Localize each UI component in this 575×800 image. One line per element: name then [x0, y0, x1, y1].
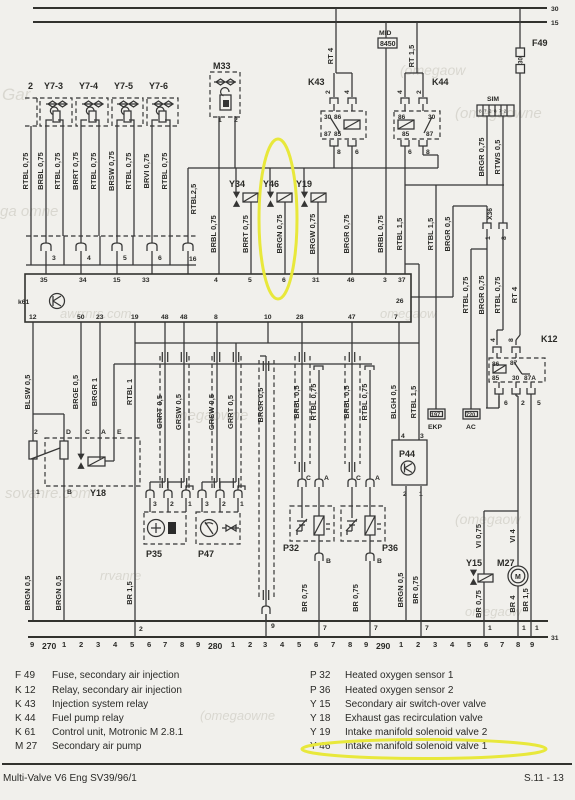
ground bus and track ruler — [28, 614, 559, 651]
svg-text:Y7-3: Y7-3 — [44, 81, 63, 91]
bottom pins — [401, 140, 409, 146]
svg-text:31: 31 — [551, 635, 559, 642]
svg-text:BR 0,75: BR 0,75 — [300, 584, 309, 612]
exhaust gas recirculation valve Y18 — [29, 364, 140, 498]
svg-text:K43: K43 — [308, 77, 325, 87]
wire MID to ECU pin 3 (BRBL 0,75) — [385, 48, 387, 274]
secondary air pump M27 — [497, 558, 528, 586]
svg-text:P44: P44 — [399, 449, 415, 459]
svg-text:M27: M27 — [497, 558, 515, 568]
svg-text:Y34: Y34 — [229, 179, 245, 189]
svg-text:6: 6 — [484, 640, 488, 649]
wire BRRT 0,75 (Y7-4 to pin 4) — [80, 126, 82, 243]
svg-text:A: A — [324, 475, 329, 482]
svg-text:BR 4: BR 4 — [508, 595, 517, 613]
knock sensor P35 — [144, 512, 186, 559]
switch blade — [31, 448, 60, 459]
svg-text:Secondary air pump: Secondary air pump — [52, 741, 142, 752]
fuse F49 — [516, 8, 548, 73]
highlight ellipse around Y46 — [259, 139, 297, 299]
svg-text:280: 280 — [208, 641, 223, 651]
svg-text:2: 2 — [34, 429, 38, 436]
svg-text:4: 4 — [401, 433, 405, 440]
pin 3 — [41, 243, 51, 251]
control unit K61 (Motronic) — [18, 274, 411, 322]
svg-text:2: 2 — [325, 90, 332, 94]
coil — [398, 120, 414, 129]
svg-text:7: 7 — [394, 314, 398, 321]
wire RTBL 0,75 — [62, 126, 64, 236]
svg-text:P 36: P 36 — [310, 685, 331, 696]
svg-text:3: 3 — [263, 640, 267, 649]
svg-text:28: 28 — [296, 314, 304, 321]
svg-text:4: 4 — [214, 277, 218, 284]
svg-text:P36: P36 — [382, 543, 398, 553]
svg-text:Multi-Valve V6 Eng SV39/96/1: Multi-Valve V6 Eng SV39/96/1 — [3, 773, 137, 784]
shield P32 — [295, 356, 310, 464]
wire ECU pin 10 stub — [267, 322, 269, 343]
svg-text:5: 5 — [537, 400, 541, 407]
svg-text:BR 1,5: BR 1,5 — [521, 588, 530, 612]
svg-text:Y7-6: Y7-6 — [149, 81, 168, 91]
svg-text:BRGW 0,75: BRGW 0,75 — [308, 214, 317, 255]
svg-text:K 12: K 12 — [15, 685, 36, 696]
pump M33 — [210, 61, 240, 124]
rail node (y185) — [405, 184, 504, 186]
injector Y7-2 (partial at left edge) — [21, 81, 37, 236]
wire RTBL 0,75 to P32 A — [314, 366, 323, 479]
connector MID 8450 — [378, 22, 397, 48]
svg-text:BLGH 0,5: BLGH 0,5 — [389, 385, 398, 419]
svg-text:9: 9 — [196, 640, 200, 649]
wire BLGH 0,5 ECU 7 to P44 — [398, 322, 400, 440]
wire BR 0,75 P32 to ground — [318, 561, 320, 621]
svg-text:47: 47 — [348, 314, 356, 321]
solenoid valve Y19 — [296, 168, 326, 207]
svg-text:P47: P47 — [198, 549, 214, 559]
svg-text:34: 34 — [79, 277, 87, 284]
svg-text:270: 270 — [42, 641, 57, 651]
svg-text:Exhaust gas recirculation valv: Exhaust gas recirculation valve — [345, 713, 483, 724]
svg-text:2: 2 — [28, 81, 33, 91]
highlight ellipse around legend Y46 line — [302, 740, 546, 759]
pin 6 — [147, 243, 157, 251]
svg-text:RTBL 1,5: RTBL 1,5 — [409, 386, 418, 419]
svg-text:F 49: F 49 — [15, 670, 35, 681]
svg-text:SIM: SIM — [487, 96, 499, 103]
svg-text:RTWS 0,5: RTWS 0,5 — [493, 140, 502, 175]
svg-text:Injection system relay: Injection system relay — [52, 699, 148, 710]
svg-text:6: 6 — [314, 640, 318, 649]
svg-text:6: 6 — [355, 149, 359, 156]
svg-text:Fuse, secondary air injection: Fuse, secondary air injection — [52, 670, 179, 681]
svg-text:23: 23 — [96, 314, 104, 321]
svg-text:BRBL 0,5: BRBL 0,5 — [342, 385, 351, 419]
svg-text:VI 0,75: VI 0,75 — [474, 524, 483, 548]
svg-text:RTBL 0,75: RTBL 0,75 — [360, 384, 369, 421]
svg-text:46: 46 — [347, 277, 355, 284]
wire RTBL 0,75 — [98, 126, 100, 236]
svg-text:Heated oxygen sensor 1: Heated oxygen sensor 1 — [345, 670, 454, 681]
svg-text:D: D — [66, 429, 71, 436]
svg-text:Y 18: Y 18 — [310, 713, 331, 724]
secondary air switch-over valve Y15 — [466, 558, 493, 585]
switch — [424, 117, 432, 133]
wire pin6 to ECU 33 — [151, 251, 153, 274]
svg-text:4: 4 — [490, 338, 497, 342]
svg-text:87: 87 — [426, 131, 434, 138]
wire VI 4 K12 pin2 to M27 — [516, 394, 518, 566]
svg-text:RTBL 1: RTBL 1 — [125, 379, 134, 405]
svg-text:7: 7 — [374, 625, 378, 632]
svg-text:5: 5 — [248, 277, 252, 284]
wire pin4 to ECU 34 — [80, 251, 82, 274]
wire BRGN 0,5 P44 to ground — [405, 486, 407, 621]
wire BRBL 0,5 ECU 47 to P36 C — [351, 322, 353, 479]
wire BRBL 0,5 ECU 28 to P32 C — [301, 322, 303, 479]
svg-text:19: 19 — [131, 314, 139, 321]
wire Y34 to ECU pin 5 (BRRT 0,75) — [250, 202, 252, 274]
svg-text:3: 3 — [52, 255, 56, 262]
svg-text:85: 85 — [402, 131, 410, 138]
svg-text:26: 26 — [396, 298, 404, 305]
svg-text:BRBL 0,75: BRBL 0,75 — [36, 152, 45, 190]
svg-text:P35: P35 — [146, 549, 162, 559]
wire BRGE 0,5 ECU 50 to Y18 C — [80, 322, 82, 455]
track ruler line — [28, 636, 548, 638]
svg-text:Control unit, Motronic M 2.8.1: Control unit, Motronic M 2.8.1 — [52, 727, 184, 738]
svg-text:6: 6 — [158, 255, 162, 262]
svg-text:7: 7 — [425, 625, 429, 632]
wire VI 0,75 branch to Y15 — [484, 511, 518, 574]
shield — [160, 356, 189, 488]
wire BR 4 M27 to ground — [517, 586, 519, 621]
svg-text:8: 8 — [508, 338, 515, 342]
svg-text:Y7-5: Y7-5 — [114, 81, 133, 91]
svg-text:M33: M33 — [213, 61, 231, 71]
pressure sensor P44 — [392, 433, 427, 498]
legend — [2, 670, 572, 784]
svg-text:GRRT 0,5: GRRT 0,5 — [226, 395, 235, 429]
svg-text:C: C — [85, 429, 90, 436]
svg-text:K 43: K 43 — [15, 699, 36, 710]
injector Y7-5 — [112, 81, 143, 126]
ruler numbers — [30, 640, 534, 651]
wire GRRT 0,5 ECU 48 — [164, 322, 166, 482]
solenoid valve Y34 — [229, 168, 258, 207]
control unit K61 region — [18, 274, 411, 322]
heated oxygen sensor P36 — [341, 475, 398, 565]
shielded pair 1 (knock sensor) — [146, 322, 193, 512]
svg-text:3: 3 — [420, 433, 424, 440]
wire RT4 F49 to K12 pin 8 — [519, 73, 521, 335]
svg-text:50: 50 — [77, 314, 85, 321]
svg-text:872872: 872872 — [479, 109, 509, 114]
bottom pins — [330, 140, 338, 146]
svg-text:3: 3 — [96, 640, 100, 649]
wire RTBL 1,5 branch from pin37 wire to P44 — [405, 264, 419, 440]
svg-text:6: 6 — [282, 277, 286, 284]
wire RT 1,5 from bus 15 — [416, 22, 418, 73]
pin jogs — [202, 482, 245, 490]
svg-text:RTBL 0,75: RTBL 0,75 — [21, 153, 30, 190]
svg-text:5: 5 — [123, 255, 127, 262]
svg-text:RT 4: RT 4 — [326, 47, 335, 64]
rail node (y168) — [188, 167, 438, 169]
svg-text:3: 3 — [205, 501, 209, 508]
svg-text:BRBL 0,5: BRBL 0,5 — [292, 385, 301, 419]
wire pin3 to ECU 35 — [45, 251, 47, 274]
svg-text:9: 9 — [530, 640, 534, 649]
injector Y7-3 — [40, 81, 72, 126]
wire RTBL 0,75 — [133, 126, 135, 236]
svg-text:BRGN 0,5: BRGN 0,5 — [23, 576, 32, 611]
svg-text:15: 15 — [551, 20, 559, 27]
pin jogs — [150, 482, 193, 490]
svg-text:2: 2 — [416, 640, 420, 649]
svg-text:RTBL 0,75: RTBL 0,75 — [53, 153, 62, 190]
connector strip to ECU — [26, 236, 197, 265]
svg-text:Y 15: Y 15 — [310, 699, 331, 710]
wire BR 0,75 P44 to ground — [420, 486, 422, 621]
svg-text:BRGE 0,5: BRGE 0,5 — [71, 375, 80, 409]
svg-text:BRBL 0,75: BRBL 0,75 — [209, 215, 218, 253]
connector X36 — [483, 208, 508, 240]
bus 30 — [33, 7, 547, 9]
svg-text:BRGR 0,5: BRGR 0,5 — [443, 217, 452, 252]
svg-text:K 61: K 61 — [15, 727, 36, 738]
svg-text:1: 1 — [188, 501, 192, 508]
node distribution line y364 — [114, 363, 372, 365]
relay body K44 — [394, 111, 440, 139]
wire rail to ECU pin 37 (RTBL 1,5) — [404, 168, 406, 274]
svg-text:30: 30 — [551, 6, 559, 13]
svg-text:E: E — [117, 429, 122, 436]
svg-text:Y 19: Y 19 — [310, 727, 331, 738]
svg-text:7: 7 — [163, 640, 167, 649]
svg-text:8450: 8450 — [380, 41, 396, 48]
svg-text:85: 85 — [492, 375, 500, 382]
wire pin5 to ECU 15 — [116, 251, 118, 274]
svg-text:M: M — [515, 574, 521, 581]
footer rule — [2, 763, 572, 765]
svg-text:RT 1,5: RT 1,5 — [407, 45, 416, 68]
wire RT 4 from bus 30 — [335, 8, 337, 73]
svg-text:87: 87 — [324, 131, 332, 138]
svg-text:2: 2 — [139, 626, 143, 633]
svg-text:6: 6 — [504, 400, 508, 407]
svg-text:K 44: K 44 — [15, 713, 36, 724]
wire X36 pin1 to AC and K12 pin 6 — [471, 229, 499, 409]
svg-text:Y15: Y15 — [466, 558, 482, 568]
svg-text:35: 35 — [40, 277, 48, 284]
wire GRSW 0,5 ECU 48 — [183, 322, 185, 482]
valve symbol — [78, 454, 84, 469]
wire GRRT 0,5 — [235, 343, 237, 482]
wire BRGN 0,5 Y18 pin1 to ground — [32, 459, 34, 621]
switch — [330, 117, 340, 133]
svg-text:Intake manifold solenoid valve: Intake manifold solenoid valve 2 — [345, 727, 488, 738]
relay K43 — [308, 8, 366, 168]
svg-text:30: 30 — [512, 375, 520, 382]
relay K44 — [394, 22, 449, 168]
svg-text:Secondary air switch-over valv: Secondary air switch-over valve — [345, 699, 487, 710]
svg-text:C: C — [356, 475, 361, 482]
svg-text:3: 3 — [433, 640, 437, 649]
pin 16 — [183, 243, 193, 251]
svg-text:1: 1 — [488, 625, 492, 632]
wire K43 pin6 to ECU pin 46 (BRGR 0,75) — [351, 168, 353, 274]
pin 6 loop down — [498, 394, 500, 408]
svg-text:AC: AC — [466, 424, 476, 431]
wire RTBL 0,75 to P36 A — [365, 366, 374, 479]
svg-text:BLSW 0,5: BLSW 0,5 — [23, 375, 32, 410]
svg-text:MID: MID — [379, 30, 392, 37]
svg-text:RTBL 0,75: RTBL 0,75 — [160, 153, 169, 190]
svg-text:RTBL 1,5: RTBL 1,5 — [426, 218, 435, 251]
svg-text:BRGN 0,5: BRGN 0,5 — [396, 573, 405, 608]
wire M33 pin1 to ECU pin 4 (BRBL 0,75) — [218, 116, 220, 274]
shield P36 — [345, 356, 360, 464]
svg-text:8: 8 — [501, 236, 508, 240]
svg-text:X36: X36 — [487, 208, 494, 220]
wire RTBL 1 ECU 19 — [134, 322, 136, 621]
wire RTBL 1,5 to EKP — [435, 185, 437, 409]
svg-text:4: 4 — [344, 90, 351, 94]
node distribution line y343 — [135, 342, 419, 344]
contact pills — [29, 441, 37, 459]
svg-text:Heated oxygen sensor 2: Heated oxygen sensor 2 — [345, 685, 454, 696]
wire pin16 to ECU — [187, 251, 189, 274]
svg-text:2: 2 — [79, 640, 83, 649]
shielded pair 2 (knock sensor 2) — [198, 322, 245, 512]
svg-text:C: C — [306, 475, 311, 482]
connector 720 AC — [463, 409, 480, 431]
svg-text:7: 7 — [323, 625, 327, 632]
svg-text:9: 9 — [271, 623, 275, 630]
svg-text:8: 8 — [348, 640, 352, 649]
svg-text:BRGR 0,5: BRGR 0,5 — [256, 388, 265, 423]
wire X36 pin8 to K12 pin 4 — [497, 229, 503, 345]
svg-text:720: 720 — [466, 413, 475, 419]
svg-text:48: 48 — [180, 314, 188, 321]
junction stubs to track line — [135, 614, 531, 637]
svg-text:omegaow: omegaow — [380, 306, 438, 321]
svg-text:1: 1 — [485, 236, 492, 240]
pin 4 — [76, 243, 86, 251]
scan watermarks (decorative) — [0, 62, 542, 723]
ground bus 31 — [28, 620, 548, 622]
svg-text:BRGR 1: BRGR 1 — [90, 378, 99, 407]
svg-text:BRGR 0,75: BRGR 0,75 — [477, 275, 486, 314]
svg-text:2: 2 — [521, 400, 525, 407]
svg-text:BR 0,75: BR 0,75 — [474, 590, 483, 618]
svg-text:VI 4: VI 4 — [508, 528, 517, 542]
svg-text:1: 1 — [240, 501, 244, 508]
svg-text:BR 0,75: BR 0,75 — [351, 584, 360, 612]
svg-text:Intake manifold solenoid valve: Intake manifold solenoid valve 1 — [345, 741, 488, 752]
wire BRGN 0,5 Y18 pinB to ground — [63, 459, 65, 621]
connector SIM — [477, 96, 514, 116]
svg-text:Y7-4: Y7-4 — [79, 81, 98, 91]
shielded single BRGR 0,5 — [256, 356, 275, 630]
svg-text:F49: F49 — [532, 38, 548, 48]
svg-text:2: 2 — [248, 640, 252, 649]
svg-text:RTBL 0,75: RTBL 0,75 — [493, 277, 502, 314]
svg-text:BRSW 0,75: BRSW 0,75 — [107, 151, 116, 191]
svg-text:B: B — [377, 558, 382, 565]
svg-text:P 32: P 32 — [310, 670, 331, 681]
svg-text:3: 3 — [153, 501, 157, 508]
svg-text:1: 1 — [36, 489, 40, 496]
wire BRVI 0,75 (Y7-6 to pin 6) — [151, 126, 153, 243]
svg-text:RT 4: RT 4 — [510, 286, 519, 303]
svg-text:6: 6 — [408, 149, 412, 156]
wire M33 pin2 to rail — [234, 116, 236, 168]
svg-text:197: 197 — [431, 413, 440, 419]
wire Y19 to ECU pin 31 (BRGW 0,75) — [317, 202, 319, 274]
wire Y46 to ECU pin 6 (BRGN 0,75) — [284, 202, 286, 274]
solenoid valve Y46 — [263, 168, 292, 207]
wire GRSW 0,5 ECU 8 — [216, 322, 218, 482]
injector Y7-6 — [147, 81, 178, 126]
svg-text:8: 8 — [180, 640, 184, 649]
wire BR 0,75 Y15 to ground — [483, 582, 485, 621]
svg-text:ga omne: ga omne — [0, 203, 58, 220]
svg-text:Relay, secondary air injection: Relay, secondary air injection — [52, 685, 182, 696]
svg-text:M 27: M 27 — [15, 741, 38, 752]
svg-text:B: B — [326, 558, 331, 565]
svg-text:7: 7 — [500, 640, 504, 649]
svg-text:16: 16 — [189, 256, 197, 263]
svg-text:RTBL2,5: RTBL2,5 — [189, 184, 198, 215]
svg-text:2: 2 — [170, 501, 174, 508]
svg-text:3: 3 — [383, 277, 387, 284]
svg-text:BR 1,5: BR 1,5 — [125, 581, 134, 605]
wire RTWS 0,5 SIM right — [502, 116, 504, 223]
svg-text:Fuel pump relay: Fuel pump relay — [52, 713, 124, 724]
bus 15 — [33, 21, 547, 23]
svg-text:8: 8 — [337, 149, 341, 156]
svg-text:85: 85 — [334, 131, 342, 138]
svg-text:B: B — [67, 489, 72, 496]
svg-text:BRRT 0,75: BRRT 0,75 — [71, 152, 80, 190]
svg-text:30: 30 — [519, 57, 525, 64]
svg-text:8: 8 — [516, 640, 520, 649]
svg-text:A: A — [101, 429, 106, 436]
svg-text:GRSW 0,5: GRSW 0,5 — [174, 394, 183, 430]
svg-text:4: 4 — [87, 255, 91, 262]
svg-text:K44: K44 — [432, 77, 449, 87]
svg-text:BRGN 0,5: BRGN 0,5 — [54, 576, 63, 611]
svg-text:15: 15 — [113, 277, 121, 284]
svg-text:37: 37 — [398, 277, 406, 284]
wire BR 1,5 K12 pin5 to ground — [530, 394, 532, 621]
pin 5 — [112, 243, 122, 251]
shield — [212, 356, 241, 488]
knock sensor P47 — [196, 512, 240, 559]
svg-text:RTBL 1,5: RTBL 1,5 — [395, 218, 404, 251]
svg-text:BRGR 0,75: BRGR 0,75 — [477, 137, 486, 176]
svg-text:S.11 - 13: S.11 - 13 — [524, 773, 564, 784]
wire RTBL 2,5 rail to pin 16 — [187, 168, 189, 243]
svg-text:31: 31 — [312, 277, 320, 284]
svg-text:12: 12 — [29, 314, 37, 321]
svg-text:K12: K12 — [541, 334, 558, 344]
svg-text:86: 86 — [334, 114, 342, 121]
svg-text:9: 9 — [30, 640, 34, 649]
svg-text:sovanre.com: sovanre.com — [5, 485, 91, 502]
